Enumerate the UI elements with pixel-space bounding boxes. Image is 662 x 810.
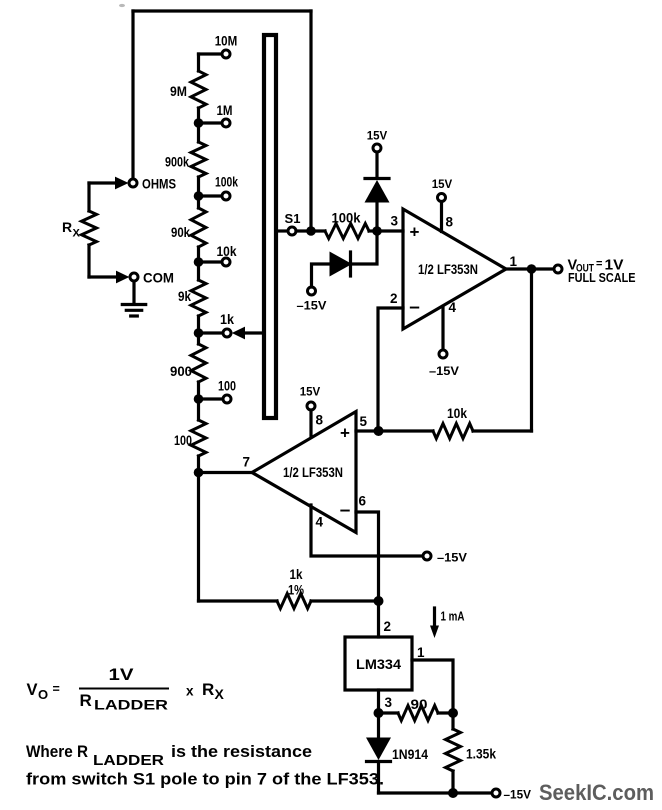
wire bar to S1 terminal [277,229,288,232]
resistor 100k [311,210,377,239]
svg-text:OHMS: OHMS [142,176,176,192]
svg-text:–15V: –15V [297,299,327,313]
wire U2 pin5 [356,414,379,431]
svg-text:4: 4 [316,515,324,530]
node/terminal 1M [194,102,233,128]
svg-text:1N914: 1N914 [392,746,428,762]
wire ladder bottom down to 1k resistor [197,473,200,602]
pin 8 U2 with 15V [300,385,324,438]
resistor 900 [170,333,206,399]
speck artifact [119,4,125,7]
annotation 1 mA arrow [430,608,465,638]
svg-text:SeekIC.com: SeekIC.com [539,780,654,805]
svg-text:1/2 LF353N: 1/2 LF353N [283,464,343,480]
svg-text:from switch S1 pole to pin 7 o: from switch S1 pole to pin 7 of the LF35… [26,770,384,789]
svg-text:1: 1 [510,254,518,269]
svg-text:8: 8 [316,413,324,428]
svg-text:15V: 15V [300,385,321,399]
wire bottom to -15V [379,791,493,794]
current source LM334 [345,637,412,690]
svg-text:FULL SCALE: FULL SCALE [568,270,636,285]
svg-text:R: R [80,691,92,710]
svg-text:1%: 1% [288,582,304,598]
svg-text:S1: S1 [285,211,301,226]
svg-text:–: – [340,500,351,521]
svg-text:15V: 15V [367,129,388,143]
node/terminal 100 [194,378,236,404]
terminal COM [130,270,174,286]
svg-text:x: x [186,684,194,699]
svg-text:100k: 100k [215,174,238,190]
watermark SeekIC.com [539,780,654,805]
svg-text:LADDER: LADDER [93,753,165,769]
svg-text:COM: COM [143,270,174,286]
svg-text:15V: 15V [432,177,453,191]
svg-text:1k: 1k [220,311,234,327]
node ladder bottom pin7 [194,468,204,478]
svg-text:90k: 90k [171,224,190,240]
svg-text:X: X [215,686,225,702]
node bottom junction [448,788,458,798]
resistor 10k feedback [379,405,532,439]
svg-text:LADDER: LADDER [94,697,168,713]
node/terminal 1k with wiper arrow [194,311,263,339]
node 1k junction [374,596,384,606]
wire LM334 pin 1 [412,645,453,713]
wire S1 to junction [296,229,311,232]
svg-text:100k: 100k [332,210,361,226]
svg-text:1/2 LF353N: 1/2 LF353N [418,261,478,277]
wire top bus [133,11,311,231]
resistor 1k 1% [199,566,379,609]
svg-text:9k: 9k [178,288,191,304]
node diode junction [372,226,403,236]
node/terminal 100k [194,174,238,201]
svg-text:R: R [62,219,72,235]
wire Rx to OHMS with arrow [89,177,128,190]
pin 8 U1 with 15V [432,177,454,232]
svg-text:–15V: –15V [437,551,467,565]
resistor RX [62,183,97,277]
svg-text:5: 5 [360,414,368,429]
svg-text:–: – [409,297,420,318]
pin 3 label [390,214,398,229]
node S1 junction [306,226,316,236]
svg-text:8: 8 [446,215,454,230]
pin 2 label [390,291,398,306]
resistor 90 [379,696,454,721]
resistor 1.35k [446,713,497,793]
diode D1 clamp to +15V [365,152,390,231]
terminal 15V clamp [367,129,388,153]
resistor 9k [178,262,206,333]
caption line 1 [26,742,312,769]
svg-text:O: O [38,687,48,702]
formula VO = 1V/RLADDER x RX [27,666,225,713]
op-amp U1 1/2 LF353N [403,209,506,329]
svg-text:=: = [596,258,602,270]
node U2 +input junction [374,426,384,436]
switch S1 bar [264,35,276,418]
svg-text:1 mA: 1 mA [441,609,465,624]
svg-text:–15V: –15V [429,364,459,378]
pin 4 U2 to -15V [311,505,423,556]
svg-text:is the resistance: is the resistance [171,742,312,761]
svg-text:9M: 9M [170,83,187,99]
wire Rx to COM with arrow [89,271,129,284]
svg-text:1M: 1M [217,102,233,118]
svg-text:Where R: Where R [26,742,88,761]
svg-text:10k: 10k [217,243,237,259]
terminal OHMS [129,176,176,192]
svg-text:=: = [53,682,60,696]
svg-text:6: 6 [359,494,367,509]
svg-text:LM334: LM334 [356,657,402,672]
svg-text:1: 1 [417,645,425,660]
svg-text:3: 3 [390,214,398,229]
svg-text:3: 3 [385,695,393,710]
wire U1 pin2 feedback down [378,308,403,431]
svg-text:+: + [410,223,420,242]
svg-text:90: 90 [411,696,428,712]
op-amp U2 1/2 LF353N [252,412,356,533]
resistor 9M [170,54,206,123]
svg-text:900: 900 [170,363,192,379]
svg-text:1.35k: 1.35k [466,746,496,762]
caption line 2 [26,770,384,789]
ground [122,282,145,317]
resistor 100 (bottom) [174,399,206,473]
wire LM334 pin 3 [379,690,393,713]
svg-text:X: X [73,228,81,240]
svg-text:4: 4 [449,300,457,315]
wire U1 output [506,254,554,269]
svg-text:7: 7 [243,455,251,470]
svg-text:V: V [27,681,38,699]
svg-text:–15V: –15V [504,788,532,802]
svg-text:10M: 10M [215,33,238,49]
svg-text:2: 2 [384,619,392,634]
terminal -15V clamp [297,287,327,313]
wire U2 pin6 [356,494,379,602]
node 90/1.35k junction [448,708,458,718]
terminal 10M [199,33,238,59]
svg-text:+: + [340,424,350,443]
diode 1N914 [366,713,428,793]
svg-text:100: 100 [174,432,192,448]
resistor 90k [171,196,206,262]
resistor 900k [165,123,206,196]
terminal VOUT [554,258,636,286]
svg-text:100: 100 [218,378,236,394]
svg-text:1k: 1k [290,566,303,582]
wire to LM334 pin 2 [379,601,392,637]
svg-text:2: 2 [390,291,398,306]
node pin3 junction [374,708,384,718]
diode D2 clamp to -15V [312,235,378,287]
node output junction [527,264,537,431]
svg-text:R: R [202,680,214,699]
pin 4 U1 with -15V [429,300,459,378]
svg-text:900k: 900k [165,154,189,170]
terminal -15V bottom [492,788,531,802]
terminal S1 [285,211,301,235]
terminal -15V U2 [423,551,467,565]
svg-text:10k: 10k [447,405,467,421]
node/terminal 10k [194,243,237,267]
wire U2 pin7 output [199,455,253,473]
svg-text:1V: 1V [109,666,134,684]
